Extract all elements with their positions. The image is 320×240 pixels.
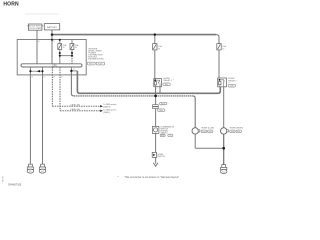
svg-text:E34: E34 [202, 131, 205, 133]
svg-text:39: 39 [222, 49, 224, 51]
svg-text:(CAN L): (CAN L) [103, 111, 110, 114]
svg-text:52: 52 [53, 41, 55, 43]
svg-text:Z5: Z5 [169, 135, 171, 137]
svg-text:M30: M30 [161, 135, 164, 137]
svg-text:(CAN H): (CAN H) [103, 105, 111, 108]
svg-text:DATA LINE: DATA LINE [71, 103, 81, 106]
svg-text:38: 38 [158, 49, 160, 51]
svg-text:CPU: CPU [52, 65, 57, 68]
svg-text:HORN: HORN [3, 2, 19, 8]
svg-text:RELAY 1: RELAY 1 [164, 79, 173, 82]
svg-text:*: * [168, 104, 169, 106]
svg-text:RELAY 2: RELAY 2 [228, 79, 237, 82]
svg-text:49: 49 [38, 41, 40, 43]
svg-text:15: 15 [44, 76, 46, 78]
svg-text:: This connector is not shown: : This connector is not shown in "Harnes… [123, 175, 180, 179]
svg-text:16: 16 [31, 76, 33, 78]
svg-text:ON OR START: ON OR START [29, 27, 43, 30]
svg-text:E44: E44 [165, 84, 168, 86]
svg-text:JRHW0702E: JRHW0702E [8, 184, 22, 186]
svg-text:E52: E52 [237, 131, 240, 133]
svg-text:48: 48 [53, 76, 55, 78]
svg-text:ENGINE ROOM): ENGINE ROOM) [88, 59, 103, 61]
svg-text:WT-28: WT-28 [3, 176, 5, 182]
svg-text:E50: E50 [41, 171, 44, 173]
svg-text:SWITCH: SWITCH [157, 156, 165, 158]
svg-text:E41: E41 [222, 171, 225, 173]
svg-text:E38: E38 [231, 131, 234, 133]
svg-text:HORN (LOW): HORN (LOW) [201, 128, 214, 130]
svg-text:BATTERY: BATTERY [47, 26, 57, 29]
svg-text:M30: M30 [159, 110, 163, 112]
svg-text:E105: E105 [161, 103, 165, 105]
svg-text:E119: E119 [89, 64, 93, 66]
svg-text:CABLE): CABLE) [160, 131, 168, 134]
svg-text:HORN (HIGH): HORN (HIGH) [230, 128, 244, 130]
svg-text:1: 1 [157, 88, 158, 90]
svg-text:27: 27 [73, 69, 75, 71]
svg-text:32: 32 [63, 47, 65, 49]
svg-text:E122: E122 [98, 64, 102, 66]
svg-text:33: 33 [75, 47, 77, 49]
svg-text:49: 49 [61, 76, 63, 78]
svg-text:*: * [173, 80, 174, 82]
svg-text:DATA LINE: DATA LINE [71, 108, 81, 111]
svg-text:E21: E21 [29, 171, 32, 173]
svg-text:E41: E41 [209, 131, 212, 133]
svg-text:E28: E28 [230, 86, 233, 88]
